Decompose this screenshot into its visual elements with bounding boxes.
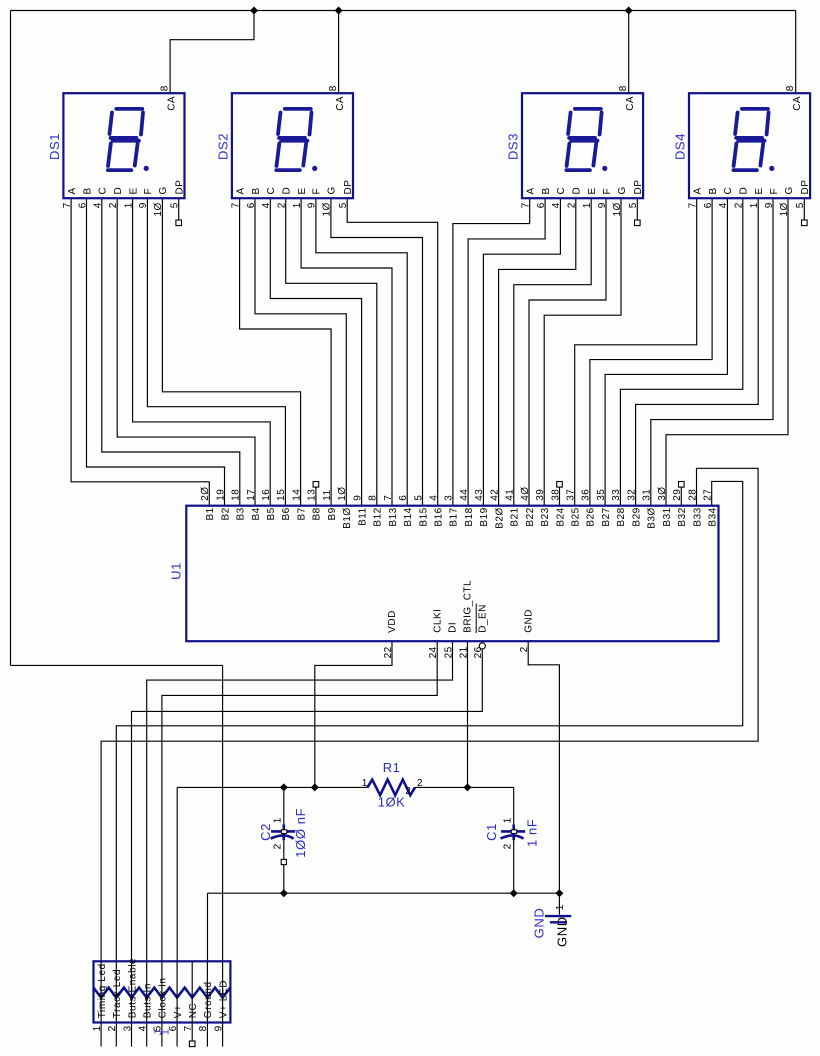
- svg-text:8: 8: [160, 85, 171, 91]
- svg-text:25: 25: [443, 646, 454, 658]
- svg-text:2: 2: [108, 202, 119, 208]
- svg-text:F: F: [143, 188, 154, 195]
- svg-text:D: D: [113, 187, 124, 195]
- wire: DS3 pin E to U1 pin B21: [514, 198, 591, 506]
- svg-text:B12: B12: [373, 507, 384, 526]
- wire: top common-anode rail: [11, 10, 796, 12]
- svg-text:E: E: [128, 187, 139, 194]
- svg-text:3: 3: [122, 1025, 133, 1031]
- wire: DS1 pin B to U1 pin B2: [87, 198, 225, 506]
- svg-text:B6: B6: [281, 507, 292, 520]
- no-connect square on DS1 DP: [176, 220, 182, 226]
- svg-text:31: 31: [642, 489, 653, 501]
- wire: DS4 pin G to U1 pin B31: [666, 198, 788, 506]
- svg-text:E: E: [754, 187, 765, 194]
- svg-text:B: B: [541, 187, 552, 194]
- wire: DS3 pin D to U1 pin B20: [499, 198, 576, 506]
- wire: DS4 pin C to U1 pin B27: [605, 198, 727, 506]
- svg-text:2: 2: [277, 202, 288, 208]
- svg-text:B14: B14: [403, 507, 414, 526]
- 7-seg display DS2 body: [232, 93, 353, 198]
- wire: DS4 pin D to U1 pin B28: [620, 198, 742, 506]
- svg-text:1: 1: [749, 202, 760, 208]
- svg-text:41: 41: [505, 489, 516, 501]
- svg-text:DP: DP: [343, 180, 354, 195]
- svg-text:B22: B22: [525, 507, 536, 526]
- svg-text:B33: B33: [692, 507, 703, 526]
- node: junction ground rail / C2: [280, 889, 288, 897]
- 7-seg display DS3 body: [522, 93, 643, 198]
- wire: DS3 pin F to U1 pin B22: [529, 198, 606, 506]
- overline bar for D_EN label: [475, 604, 477, 634]
- node: junction on rail above DS3: [625, 7, 633, 15]
- svg-text:A: A: [67, 187, 78, 194]
- svg-text:B13: B13: [388, 507, 399, 526]
- wire: down to GND terminal: [558, 893, 560, 914]
- wire: DS1 DP stub (not connected): [178, 198, 180, 220]
- svg-text:B2Ø: B2Ø: [494, 507, 505, 529]
- svg-text:B15: B15: [418, 507, 429, 526]
- svg-text:Clock In: Clock In: [158, 977, 169, 1018]
- svg-text:2: 2: [519, 646, 530, 652]
- svg-text:B: B: [251, 187, 262, 194]
- node: junction V+ rail / VDD: [311, 783, 319, 791]
- node: junction on rail above DS2: [335, 7, 343, 15]
- svg-text:7: 7: [383, 495, 394, 501]
- svg-text:2: 2: [272, 843, 283, 849]
- svg-text:7: 7: [521, 202, 532, 208]
- svg-text:18: 18: [231, 489, 242, 501]
- svg-text:2: 2: [502, 843, 513, 849]
- svg-text:F: F: [769, 188, 780, 195]
- svg-text:37: 37: [566, 489, 577, 501]
- svg-text:B4: B4: [251, 507, 262, 520]
- svg-text:1Ø: 1Ø: [337, 486, 348, 500]
- svg-text:1: 1: [123, 202, 134, 208]
- wire: J1 pin 1 stub below: [100, 1023, 102, 1047]
- wire: connector J1 pin 3 through-body lead: [131, 961, 133, 1022]
- svg-text:26: 26: [473, 646, 484, 658]
- wire: J1 pin 8 stub below: [206, 1023, 208, 1047]
- wire: DS2 pin E to U1 pin B13: [301, 198, 392, 506]
- wire: C1 pin 2 down to ground rail: [513, 840, 515, 893]
- wire: DS2 pin A to U1 pin B9: [240, 198, 332, 506]
- svg-text:35: 35: [596, 489, 607, 501]
- svg-text:G: G: [158, 186, 169, 194]
- svg-text:17: 17: [246, 489, 257, 501]
- wire: DS4 CA connection from rail: [795, 11, 797, 94]
- svg-text:44: 44: [459, 489, 470, 501]
- capacitor C2 symbol: [271, 824, 296, 840]
- node: junction ground rail / C1: [510, 889, 518, 897]
- wire: DS1 pin C to U1 pin B3: [102, 198, 240, 506]
- svg-text:4Ø: 4Ø: [520, 486, 531, 500]
- svg-text:B8: B8: [312, 507, 323, 520]
- wire: drop to C1 pin 1: [513, 787, 515, 824]
- svg-text:4: 4: [138, 1025, 149, 1031]
- wire: DS3 pin A to U1 pin B17: [453, 198, 530, 506]
- svg-text:B3: B3: [236, 507, 247, 520]
- wire: DS3 pin C to U1 pin B19: [483, 198, 560, 506]
- 7-seg digit of DS1: [108, 109, 149, 171]
- svg-text:32: 32: [626, 489, 637, 501]
- svg-text:36: 36: [581, 489, 592, 501]
- svg-text:C: C: [556, 187, 567, 195]
- svg-text:B25: B25: [571, 507, 582, 526]
- wire: DS2 pin DP to U1 pin B16: [347, 198, 438, 506]
- svg-text:B1Ø: B1Ø: [342, 507, 353, 529]
- svg-text:E: E: [587, 187, 598, 194]
- wire: DS4 pin A to U1 pin B25: [575, 198, 697, 506]
- svg-text:21: 21: [458, 646, 469, 658]
- svg-text:BRIG_CTL: BRIG_CTL: [463, 580, 474, 633]
- svg-text:1: 1: [292, 202, 303, 208]
- svg-text:4: 4: [93, 202, 104, 208]
- wire: connector J1 pin 8 through-body lead: [206, 961, 208, 1022]
- svg-text:B3Ø: B3Ø: [647, 507, 658, 529]
- svg-text:CA: CA: [792, 96, 803, 111]
- svg-text:B32: B32: [677, 507, 688, 526]
- svg-text:Timing Led: Timing Led: [97, 963, 108, 1018]
- svg-text:1Ø: 1Ø: [153, 202, 164, 216]
- wire: DS2 pin F to U1 pin B14: [316, 198, 407, 506]
- wire: DS1 pin G to U1 pin B7: [162, 198, 300, 506]
- wire: C2 pin 2 down to ground rail: [283, 840, 285, 893]
- node: junction ground rail / GND terminal: [555, 889, 563, 897]
- svg-text:B23: B23: [540, 507, 551, 526]
- wire: DS3 pin G to U1 pin B23: [544, 198, 621, 506]
- svg-text:DP: DP: [800, 180, 811, 195]
- wire: J1 pin 4 stub below: [146, 1023, 148, 1047]
- svg-text:B5: B5: [266, 507, 277, 520]
- wire: connector J1 pin 5 through-body lead: [161, 961, 163, 1022]
- wire: DS2 pin D to U1 pin B12: [286, 198, 377, 506]
- svg-text:B: B: [708, 187, 719, 194]
- svg-text:B27: B27: [601, 507, 612, 526]
- svg-text:2Ø: 2Ø: [200, 486, 211, 500]
- wire: DS4 pin E to U1 pin B29: [636, 198, 759, 506]
- wire: U1 D_EN to connector pin 3 (Buts Enable): [132, 649, 483, 961]
- svg-text:DS4: DS4: [672, 133, 687, 160]
- svg-text:1Ø: 1Ø: [612, 202, 623, 216]
- wire: U1 DI to connector pin 4 (Buts In): [147, 641, 453, 961]
- no-connect square on DS3 DP: [635, 220, 641, 226]
- wire: V+ rail right segment R1 pin 2 to C1: [415, 786, 514, 788]
- svg-text:B16: B16: [434, 507, 445, 526]
- no-connect square on U1 pin B8: [313, 482, 319, 488]
- svg-text:R1: R1: [383, 760, 401, 775]
- svg-text:B2: B2: [220, 507, 231, 520]
- svg-text:6: 6: [536, 202, 547, 208]
- svg-text:8: 8: [618, 85, 629, 91]
- 7-seg digit of DS3: [566, 109, 607, 171]
- wire: connector J1 pin 7 through-body lead: [191, 961, 193, 1022]
- wire: DS2 CA connection from rail: [338, 11, 340, 94]
- svg-text:7: 7: [688, 202, 699, 208]
- svg-text:Buts Enable: Buts Enable: [127, 958, 138, 1019]
- svg-text:2: 2: [107, 1025, 118, 1031]
- svg-text:D: D: [282, 187, 293, 195]
- svg-text:5: 5: [170, 202, 181, 208]
- svg-text:8: 8: [198, 1025, 209, 1031]
- svg-text:GND: GND: [555, 916, 570, 947]
- svg-text:V+ LED: V+ LED: [218, 980, 229, 1018]
- svg-text:B9: B9: [327, 507, 338, 520]
- svg-text:B11: B11: [357, 507, 368, 526]
- svg-text:Buts In: Buts In: [143, 983, 154, 1018]
- svg-text:6: 6: [77, 202, 88, 208]
- svg-text:6: 6: [398, 495, 409, 501]
- wire: U1 pin B33 to connector pin 1 (Timing Led): [101, 468, 758, 961]
- svg-text:C1: C1: [484, 823, 499, 841]
- no-connect square on DS4 DP: [802, 220, 808, 226]
- svg-text:C: C: [266, 187, 277, 195]
- svg-text:C: C: [723, 187, 734, 195]
- svg-text:DP: DP: [175, 180, 186, 195]
- 7-seg display DS4 body: [689, 93, 810, 198]
- wire: J1 pin 9 stub below: [222, 1023, 224, 1047]
- svg-text:B1: B1: [205, 507, 216, 520]
- wire: DS3 DP stub (not connected): [636, 198, 638, 220]
- svg-text:1ØØ nF: 1ØØ nF: [293, 808, 308, 858]
- connector J1 body: [94, 961, 231, 1022]
- wire: DS2 pin G to U1 pin B15: [331, 198, 423, 506]
- wire: J1 pin 5 stub below: [161, 1023, 163, 1047]
- wire: U1 pin B24 stub (not connected): [559, 487, 561, 506]
- svg-text:VDD: VDD: [387, 610, 398, 633]
- svg-text:1ØK: 1ØK: [378, 795, 406, 810]
- svg-text:1: 1: [161, 1029, 172, 1035]
- wire: DS1 pin F to U1 pin B6: [147, 198, 285, 506]
- svg-text:13: 13: [307, 489, 318, 501]
- svg-text:2: 2: [405, 786, 411, 797]
- svg-text:27: 27: [703, 489, 714, 501]
- wire: left vertical rail down to V+LED run: [10, 11, 12, 666]
- wire: U1 pin B8 stub (not connected): [315, 487, 317, 506]
- wire: drop to connector pin 9: [222, 665, 224, 961]
- svg-text:E: E: [297, 187, 308, 194]
- svg-text:28: 28: [687, 489, 698, 501]
- svg-text:1: 1: [92, 1025, 103, 1031]
- node: junction V+ rail / BRIG_CTL / R1.2: [464, 783, 472, 791]
- svg-text:Track Led: Track Led: [112, 969, 123, 1019]
- svg-text:9: 9: [764, 202, 775, 208]
- no-connect square on J1 pin 7: [189, 1041, 195, 1047]
- svg-text:1: 1: [502, 817, 513, 823]
- no-connect square on U1 pin B32: [679, 482, 685, 488]
- svg-text:U1: U1: [169, 562, 184, 580]
- svg-text:29: 29: [672, 489, 683, 501]
- svg-text:3: 3: [444, 495, 455, 501]
- wire: connector J1 pin 4 through-body lead: [146, 961, 148, 1022]
- wire: ground rail: [208, 892, 560, 894]
- svg-text:A: A: [526, 187, 537, 194]
- svg-text:B24: B24: [555, 507, 566, 526]
- svg-text:B28: B28: [616, 507, 627, 526]
- svg-text:1: 1: [555, 904, 566, 910]
- svg-text:CA: CA: [335, 96, 346, 111]
- svg-text:DS3: DS3: [505, 133, 520, 160]
- wire: ground rail drop to connector pin 8 (Ground): [207, 893, 209, 961]
- no-connect square on U1 pin B24: [557, 482, 563, 488]
- wire: DS2 pin C to U1 pin B11: [270, 198, 361, 506]
- svg-text:F: F: [602, 188, 613, 195]
- svg-text:19: 19: [215, 489, 226, 501]
- svg-text:5: 5: [338, 202, 349, 208]
- wire: horizontal run to connector pin 9 (V+ LED): [11, 664, 223, 666]
- svg-text:15: 15: [276, 489, 287, 501]
- wire: J1 pin 3 stub below: [131, 1023, 133, 1047]
- wire: connector J1 pin 2 through-body lead: [115, 961, 117, 1022]
- svg-text:2: 2: [567, 202, 578, 208]
- svg-text:4: 4: [718, 202, 729, 208]
- svg-text:1Ø: 1Ø: [779, 202, 790, 216]
- svg-text:D: D: [572, 187, 583, 195]
- wire: U1 VDD to V+ rail: [315, 641, 392, 787]
- svg-text:B17: B17: [449, 507, 460, 526]
- svg-text:DP: DP: [633, 180, 644, 195]
- svg-text:F: F: [312, 188, 323, 195]
- svg-text:8: 8: [368, 495, 379, 501]
- svg-text:8: 8: [328, 85, 339, 91]
- svg-text:42: 42: [489, 489, 500, 501]
- wire: DS1 CA connection from rail: [170, 11, 254, 94]
- svg-text:5: 5: [413, 495, 424, 501]
- svg-text:G: G: [784, 186, 795, 194]
- svg-text:14: 14: [291, 489, 302, 501]
- svg-text:1: 1: [272, 817, 283, 823]
- wire: U1 pin B34 to connector pin 2 (Track Led): [116, 481, 742, 961]
- svg-text:7: 7: [183, 1025, 194, 1031]
- wire: C2 pin 1 from V+ rail: [283, 787, 285, 824]
- svg-text:NC: NC: [188, 1003, 199, 1019]
- svg-text:DI: DI: [448, 622, 459, 633]
- svg-text:9: 9: [213, 1025, 224, 1031]
- svg-text:6: 6: [703, 202, 714, 208]
- wire: connector J1 pin 6 through-body lead: [176, 961, 178, 1022]
- node: junction on rail above DS1: [250, 7, 258, 15]
- wire: connector J1 pin 1 through-body lead: [100, 961, 102, 1022]
- svg-text:B7: B7: [296, 507, 307, 520]
- svg-text:16: 16: [261, 489, 272, 501]
- svg-text:B34: B34: [708, 507, 719, 526]
- svg-text:7: 7: [62, 202, 73, 208]
- svg-text:6: 6: [246, 202, 257, 208]
- wire: DS3 pin B to U1 pin B18: [468, 198, 545, 506]
- inversion bubble on U1 D_EN pin: [479, 643, 485, 649]
- 7-seg digit of DS2: [276, 109, 317, 171]
- svg-text:22: 22: [383, 646, 394, 658]
- svg-text:1Ø: 1Ø: [322, 202, 333, 216]
- svg-text:24: 24: [428, 646, 439, 658]
- svg-text:1: 1: [582, 202, 593, 208]
- svg-text:A: A: [235, 187, 246, 194]
- svg-text:DS2: DS2: [215, 133, 230, 160]
- svg-text:B31: B31: [662, 507, 673, 526]
- dangling-pin square on C2 lower lead: [281, 859, 286, 864]
- svg-text:7: 7: [230, 202, 241, 208]
- svg-text:43: 43: [474, 489, 485, 501]
- svg-text:2: 2: [734, 202, 745, 208]
- svg-text:8: 8: [785, 85, 796, 91]
- wire: U1 BRIG_CTL down to RC node: [467, 641, 469, 787]
- svg-text:9: 9: [597, 202, 608, 208]
- wire: J1 pin 6 stub below: [176, 1023, 178, 1047]
- svg-text:1: 1: [362, 778, 368, 789]
- svg-text:B18: B18: [464, 507, 475, 526]
- driver IC U1 body: [186, 506, 718, 642]
- svg-text:B: B: [82, 187, 93, 194]
- svg-text:9: 9: [138, 202, 149, 208]
- wire: U1 pin B32 stub (not connected): [680, 487, 682, 506]
- svg-text:Ground: Ground: [203, 981, 214, 1018]
- svg-text:CLKI: CLKI: [432, 609, 443, 633]
- ground terminal GND bars: [545, 916, 571, 922]
- wire: DS2 pin B to U1 pin B10: [255, 198, 346, 506]
- wire: DS1 pin D to U1 pin B4: [117, 198, 255, 506]
- svg-text:B19: B19: [479, 507, 490, 526]
- wire: V+ rail drop to connector pin 6 (V+): [176, 787, 178, 961]
- wire: DS1 pin E to U1 pin B5: [133, 198, 271, 506]
- wire: DS4 DP stub (not connected): [803, 198, 805, 220]
- wire: U1 CLKI to connector pin 5 (Clock In): [162, 641, 437, 961]
- svg-text:4: 4: [261, 202, 272, 208]
- svg-text:B21: B21: [510, 507, 521, 526]
- wire: U1 GND down to ground rail: [528, 641, 559, 893]
- svg-text:33: 33: [611, 489, 622, 501]
- wire: DS1 pin A to U1 pin B1: [71, 198, 209, 506]
- svg-text:C: C: [98, 187, 109, 195]
- wire: DS4 pin F to U1 pin B30: [651, 198, 773, 506]
- svg-text:B26: B26: [586, 507, 597, 526]
- svg-text:GND: GND: [531, 908, 546, 939]
- svg-text:G: G: [327, 186, 338, 194]
- svg-text:4: 4: [429, 495, 440, 501]
- svg-text:2: 2: [417, 778, 423, 789]
- wire: connector J1 pin 9 through-body lead: [222, 961, 224, 1022]
- svg-text:9: 9: [307, 202, 318, 208]
- svg-text:9: 9: [352, 495, 363, 501]
- svg-text:A: A: [693, 187, 704, 194]
- svg-text:4: 4: [551, 202, 562, 208]
- svg-text:5: 5: [795, 202, 806, 208]
- svg-text:V+: V+: [173, 1005, 184, 1019]
- 7-seg display DS1 body: [63, 93, 184, 198]
- svg-text:GND: GND: [523, 609, 534, 633]
- wire: J1 pin 2 stub below: [115, 1023, 117, 1047]
- wire: DS3 CA connection from rail: [628, 11, 630, 94]
- wire: DS4 pin B to U1 pin B26: [590, 198, 712, 506]
- svg-text:D_EN: D_EN: [478, 604, 489, 633]
- resistor R1 zigzag: [367, 780, 415, 796]
- svg-text:G: G: [617, 186, 628, 194]
- wire: V+ rail left segment to R1 pin 1: [177, 786, 367, 788]
- svg-text:39: 39: [535, 489, 546, 501]
- node: junction V+ rail / C2: [280, 783, 288, 791]
- svg-text:11: 11: [322, 489, 333, 500]
- svg-text:DS1: DS1: [47, 133, 62, 160]
- 7-seg digit of DS4: [733, 109, 774, 171]
- svg-text:CA: CA: [166, 96, 177, 111]
- svg-text:38: 38: [550, 489, 561, 501]
- svg-text:3Ø: 3Ø: [657, 486, 668, 500]
- svg-text:B29: B29: [631, 507, 642, 526]
- svg-text:C2: C2: [258, 823, 273, 841]
- connector J1 zigzag contacts: [94, 988, 231, 998]
- capacitor C1 symbol: [501, 824, 526, 840]
- svg-text:1 nF: 1 nF: [525, 819, 540, 847]
- svg-text:CA: CA: [625, 96, 636, 111]
